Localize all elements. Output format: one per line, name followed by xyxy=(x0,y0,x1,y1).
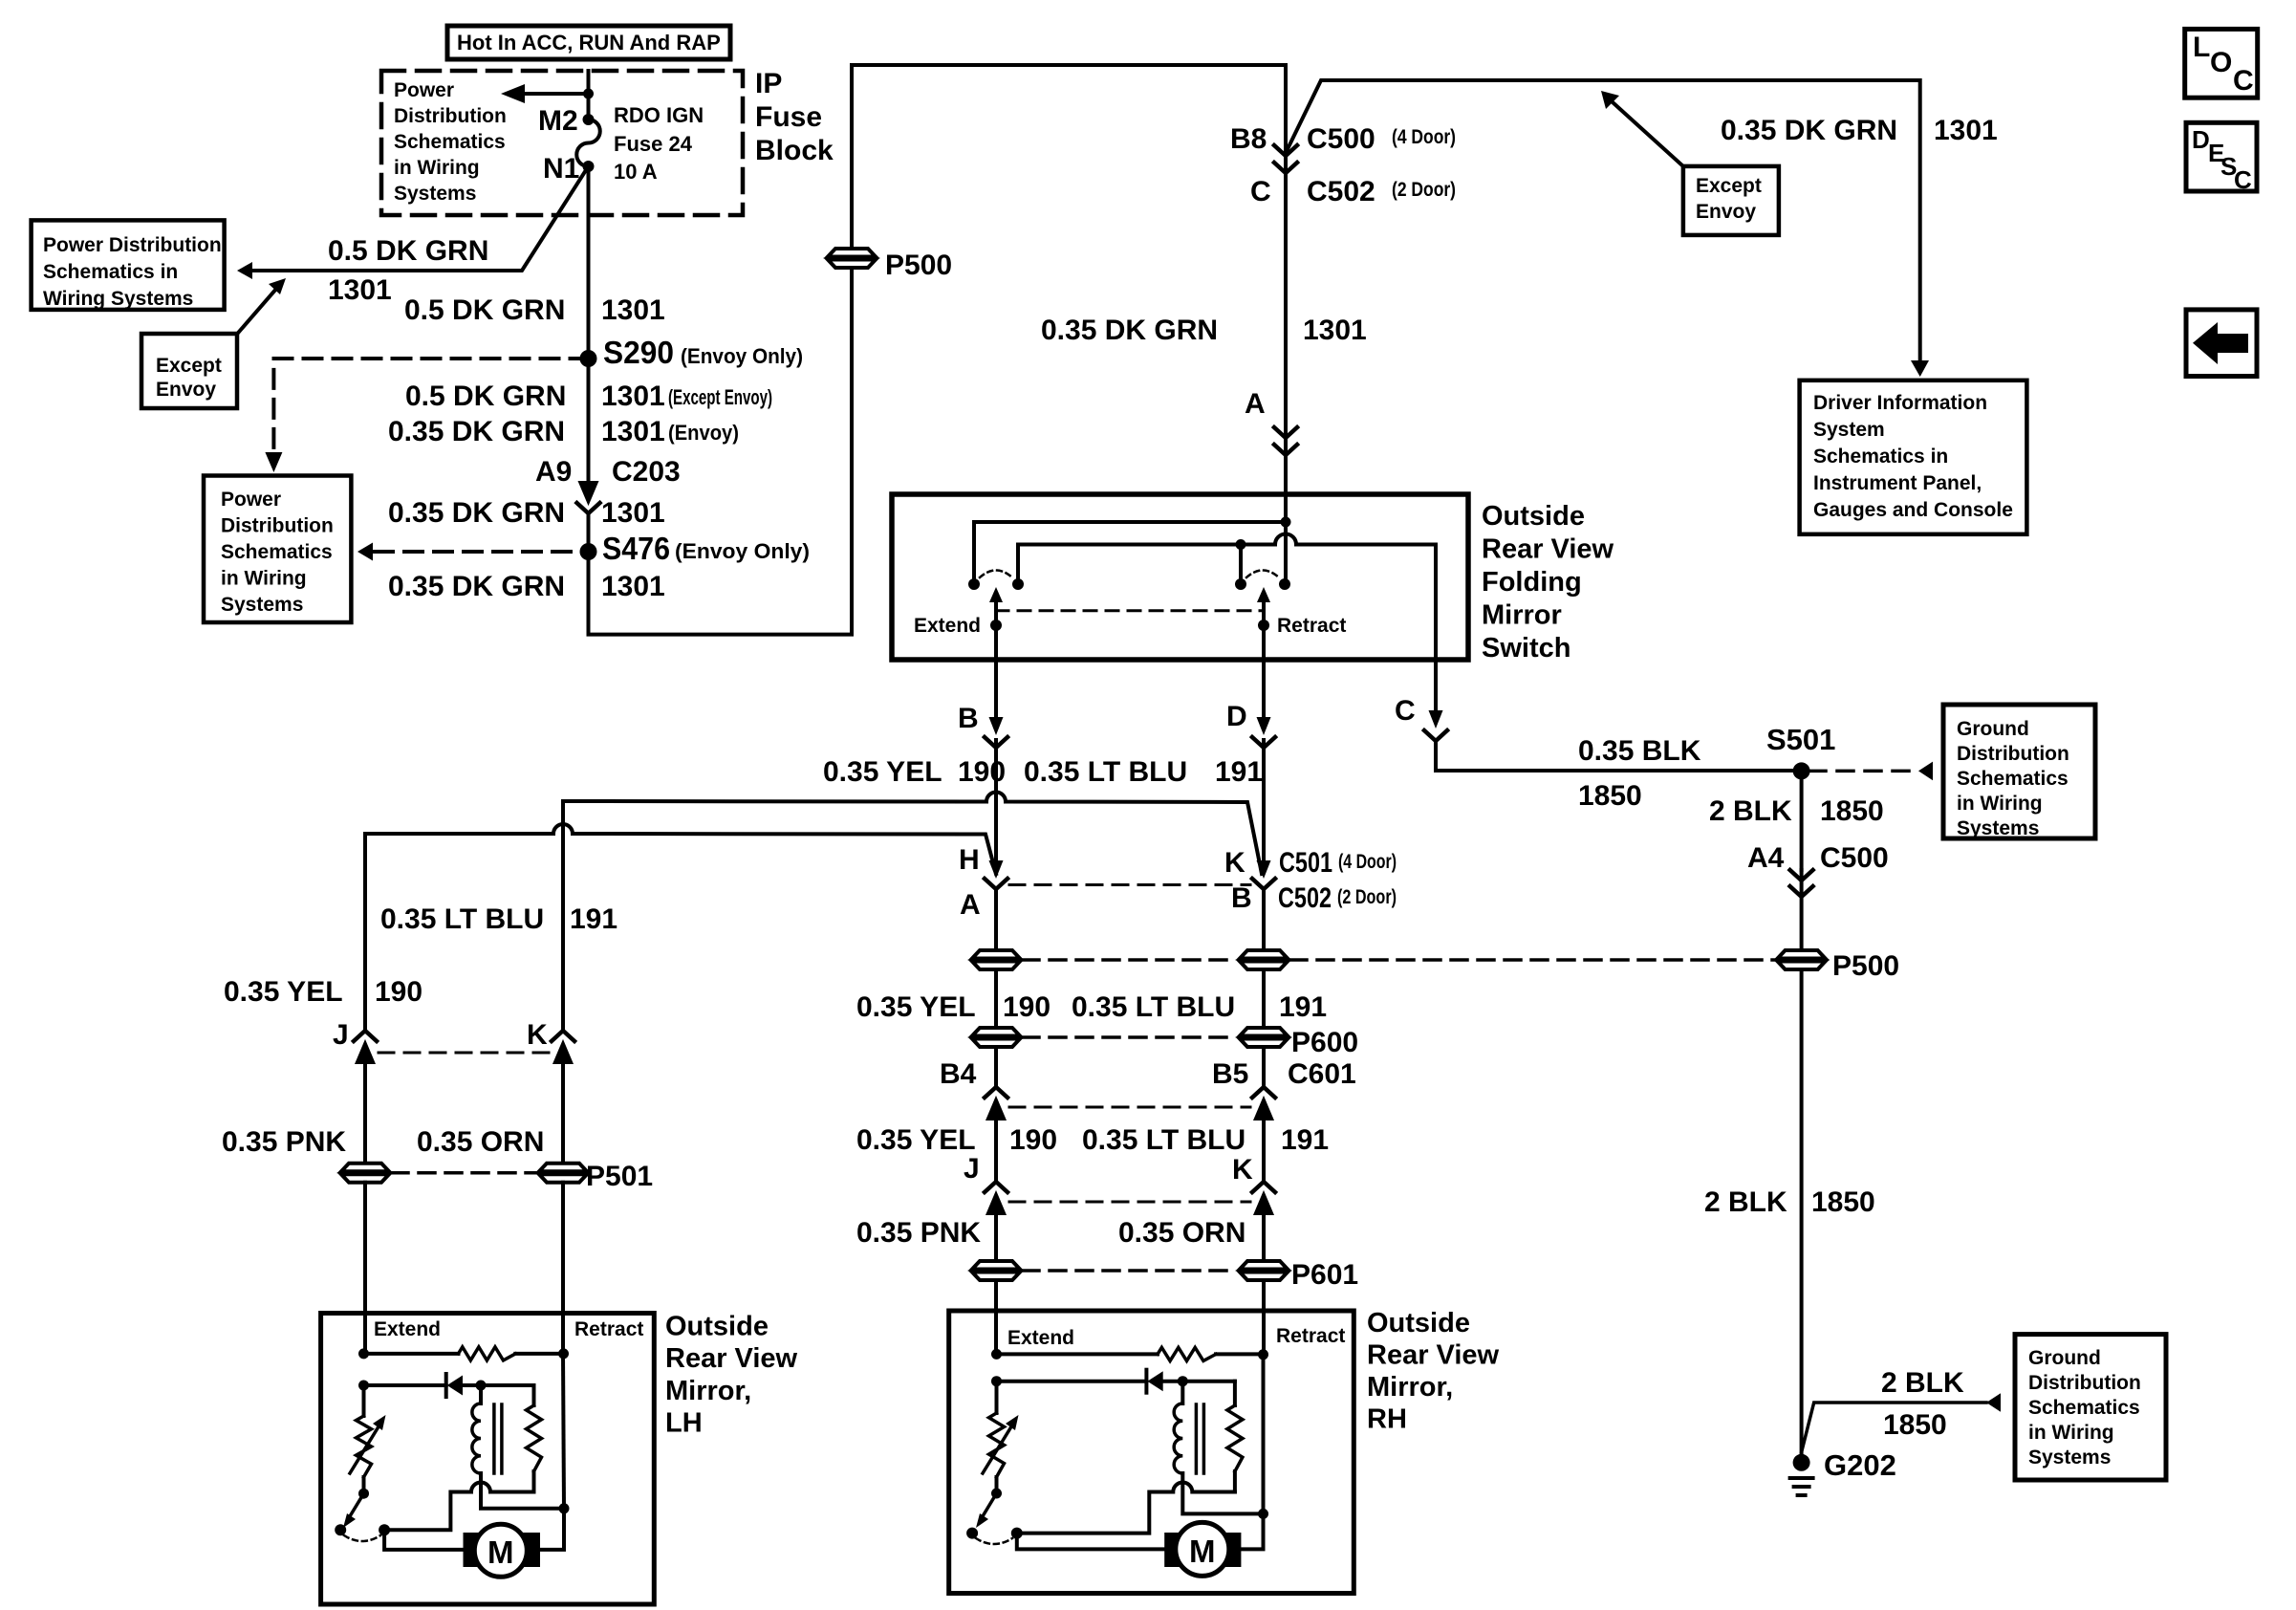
connector C601 pin B5 xyxy=(1212,1058,1356,1182)
label: 2 BLK / 1850 (branch) xyxy=(1881,1367,1964,1441)
svg-text:Retract: Retract xyxy=(1276,1325,1345,1347)
svg-text:0.5 DK GRN: 0.5 DK GRN xyxy=(328,235,488,267)
wire: D wire down through K xyxy=(1262,740,1266,859)
svg-text:0.35 ORN: 0.35 ORN xyxy=(1118,1217,1245,1249)
connector C501 pin K / C502 pin B xyxy=(1224,847,1397,950)
svg-text:0.35 YEL: 0.35 YEL xyxy=(856,991,976,1023)
wire: Retract wire to box edge xyxy=(1262,625,1266,660)
wire: S501 down xyxy=(1800,771,1804,870)
svg-text:191: 191 xyxy=(1279,991,1327,1023)
svg-text:0.35 YEL: 0.35 YEL xyxy=(224,976,343,1008)
svg-text:Systems: Systems xyxy=(221,594,303,616)
svg-text:0.5 DK GRN: 0.5 DK GRN xyxy=(405,381,566,412)
connector P601 (left) xyxy=(972,1261,1020,1280)
label: back-arrow box xyxy=(2186,310,2257,377)
label: 0.35 DK GRN 1301 (top right) xyxy=(1721,115,1998,146)
wire: resistor bottom to switch contact (LH) with hop xyxy=(384,1483,533,1531)
svg-text:1301: 1301 xyxy=(601,497,665,529)
svg-text:in Wiring: in Wiring xyxy=(1957,793,2043,815)
wire: dashed P600 line xyxy=(1023,1035,1237,1039)
label: 0.35 YEL 190 / 0.35 LT BLU 191 (row 2) xyxy=(856,991,1327,1023)
svg-text:Power: Power xyxy=(394,79,454,101)
svg-text:190: 190 xyxy=(1009,1124,1057,1156)
svg-text:Distribution: Distribution xyxy=(1957,743,2069,765)
svg-text:Except: Except xyxy=(1696,175,1762,197)
svg-text:M2: M2 xyxy=(538,105,578,137)
resistor (RH bridge) xyxy=(997,1352,1159,1356)
wire: 0.5 DK GRN 1301 to power distribution (left) xyxy=(237,166,589,279)
svg-text:G202: G202 xyxy=(1824,1448,1896,1482)
svg-text:Retract: Retract xyxy=(1277,615,1346,637)
label: Outside Rear View Folding Mirror Switch xyxy=(1482,501,1614,664)
wire: RH retract vertical xyxy=(1262,1355,1266,1513)
svg-text:191: 191 xyxy=(1281,1124,1329,1156)
svg-text:0.35 YEL: 0.35 YEL xyxy=(823,756,942,788)
svg-text:0.35 ORN: 0.35 ORN xyxy=(417,1126,544,1158)
main wire: 0.5 DK GRN 1301 vertical from N1 xyxy=(587,166,591,359)
svg-text:1301: 1301 xyxy=(601,416,665,447)
label: Hot In ACC RUN And RAP box xyxy=(447,26,730,59)
svg-text:Rear View: Rear View xyxy=(1482,534,1614,565)
svg-text:2 BLK: 2 BLK xyxy=(1709,795,1792,827)
connector P500 (left pass-through) xyxy=(972,950,1020,969)
svg-text:System: System xyxy=(1813,419,1885,441)
splice S501 xyxy=(1793,762,1810,779)
svg-text:K: K xyxy=(1232,1154,1253,1186)
svg-text:(Envoy): (Envoy) xyxy=(668,421,739,445)
connector pin A (switch) xyxy=(1245,388,1297,455)
wire: dashed connector line H-K xyxy=(1009,883,1250,886)
svg-text:1850: 1850 xyxy=(1811,1186,1875,1218)
svg-text:A9: A9 xyxy=(535,456,572,488)
svg-text:Ground: Ground xyxy=(2028,1347,2101,1369)
connector P501 (right) xyxy=(539,1164,587,1183)
svg-text:Rear View: Rear View xyxy=(1367,1340,1500,1371)
svg-text:Outside: Outside xyxy=(1482,501,1585,532)
wire: branch to ground distribution (lower) xyxy=(1802,1393,2001,1452)
label: 0.5 DK GRN / 1301 (vertical) xyxy=(404,294,665,326)
svg-text:190: 190 xyxy=(375,976,422,1008)
connector pin K (LH mirror) xyxy=(527,1019,574,1164)
wire: second bus in switch xyxy=(1018,534,1436,661)
svg-text:0.5 DK GRN: 0.5 DK GRN xyxy=(404,294,565,326)
svg-text:0.35 YEL: 0.35 YEL xyxy=(856,1124,976,1156)
ground G202 xyxy=(1790,1454,1813,1495)
connector pin D (switch) xyxy=(1226,660,1275,748)
wire: dashed connector line B4-B5 xyxy=(1009,1106,1250,1109)
wire: arrow to Except Envoy (top right) xyxy=(1601,91,1683,166)
wire: motor to retract wire (RH) xyxy=(1241,1513,1263,1549)
wire: contact to motor (RH) xyxy=(1017,1534,1164,1550)
svg-text:1301: 1301 xyxy=(1303,315,1367,346)
svg-text:Schematics in: Schematics in xyxy=(43,261,178,283)
IP fuse block (dashed box) xyxy=(381,71,743,215)
label: Power Distribution Schematics in Wiring Systems box (left) xyxy=(32,220,225,310)
connector P501 (left) xyxy=(341,1164,389,1183)
wire: P600 to C601 xyxy=(994,1047,998,1086)
label: Driver Information System box xyxy=(1800,381,2027,534)
wire: dashed from S476 to power distribution box xyxy=(357,543,589,561)
svg-text:Extend: Extend xyxy=(1007,1327,1074,1349)
wire: dashed connector line J-K (LH) xyxy=(379,1052,550,1055)
svg-text:in Wiring: in Wiring xyxy=(2028,1422,2114,1444)
label: Except Envoy box (top right) xyxy=(1683,166,1779,235)
svg-text:K: K xyxy=(527,1019,548,1051)
svg-text:0.35 PNK: 0.35 PNK xyxy=(222,1126,346,1158)
svg-text:Mirror,: Mirror, xyxy=(1367,1372,1453,1403)
label: DESC box xyxy=(2186,122,2257,194)
label: 2 BLK 1850 (below S501) xyxy=(1709,795,1884,827)
svg-text:Extend: Extend xyxy=(914,615,981,637)
svg-text:Instrument Panel,: Instrument Panel, xyxy=(1813,472,1982,494)
wire: YEL branch down (J side) xyxy=(363,834,367,1032)
wire: feed hop and down to right contact xyxy=(1284,522,1288,584)
wire: LH extend node xyxy=(358,1348,369,1359)
svg-text:2 BLK: 2 BLK xyxy=(1704,1186,1787,1218)
label: 0.35 DK GRN 1301 (above switch) xyxy=(1041,315,1367,346)
svg-text:1301: 1301 xyxy=(601,381,665,412)
svg-text:191: 191 xyxy=(1215,756,1263,788)
svg-text:Schematics: Schematics xyxy=(394,131,506,153)
svg-text:(2 Door): (2 Door) xyxy=(1337,886,1397,908)
svg-text:D: D xyxy=(1226,701,1247,732)
label: Except Envoy box (left) xyxy=(141,334,237,408)
label: 0.35 DK GRN 1301 (below C203) xyxy=(388,497,665,529)
svg-text:1850: 1850 xyxy=(1578,780,1642,812)
motor M (RH) xyxy=(1164,1522,1241,1576)
svg-text:B: B xyxy=(958,703,979,734)
connector C501 pin H / C502 pin A xyxy=(959,844,1007,950)
wire: contact to motor (LH) xyxy=(384,1530,463,1550)
label: 0.35 LT BLU 191 (left) xyxy=(380,903,617,935)
svg-text:C502: C502 xyxy=(1307,176,1375,207)
svg-text:Distribution: Distribution xyxy=(2028,1372,2141,1394)
svg-text:in Wiring: in Wiring xyxy=(221,568,307,590)
svg-text:L: L xyxy=(2193,32,2210,63)
label: Ground Distribution Schematics in Wiring Systems box (lower) xyxy=(2015,1335,2166,1480)
svg-text:D: D xyxy=(2192,125,2210,154)
connector P500 (right pass-through) xyxy=(1240,950,1288,969)
switch contacts (Extend side) xyxy=(968,578,980,590)
label: 0.35 YEL 190 / 0.35 LT BLU 191 (row 3) xyxy=(856,1124,1329,1156)
svg-text:RDO IGN: RDO IGN xyxy=(614,103,704,127)
wire: B wire down through H xyxy=(994,740,998,859)
wire: motor to retract wire (LH) xyxy=(540,1509,564,1550)
svg-text:N1: N1 xyxy=(543,153,579,185)
connector C500 pin A4 xyxy=(1747,842,1889,897)
svg-text:Distribution: Distribution xyxy=(221,515,334,537)
wire: dashed connector line J-K xyxy=(1009,1201,1250,1204)
variable resistor PTC (LH) xyxy=(362,1385,366,1416)
svg-text:M: M xyxy=(487,1534,514,1570)
svg-text:Outside: Outside xyxy=(1367,1308,1470,1338)
svg-text:Schematics: Schematics xyxy=(221,541,333,563)
diode (LH) xyxy=(364,1383,446,1387)
svg-text:Schematics in: Schematics in xyxy=(1813,446,1948,468)
svg-text:Systems: Systems xyxy=(394,183,476,205)
splice S476 (Envoy Only) xyxy=(580,543,597,560)
switch wiper Retract xyxy=(1257,587,1270,631)
svg-text:Fuse 24: Fuse 24 xyxy=(614,132,693,156)
svg-text:C500: C500 xyxy=(1307,123,1375,155)
wire: A4 to P500 xyxy=(1800,870,1804,950)
svg-text:Schematics: Schematics xyxy=(2028,1397,2140,1419)
wire: resistor bottom to contact (RH) with hop xyxy=(1017,1483,1235,1534)
svg-text:Hot In ACC, RUN And RAP: Hot In ACC, RUN And RAP xyxy=(457,31,721,54)
connector pin K (RH mirror) xyxy=(1232,1154,1275,1261)
svg-text:J: J xyxy=(964,1153,980,1185)
wire: RH extend node xyxy=(991,1349,1002,1360)
svg-text:K: K xyxy=(1224,847,1245,879)
wire: S290 to C203 xyxy=(587,359,591,483)
wire: dashed P500 line across to body P500 xyxy=(1023,958,1237,962)
svg-text:Mirror: Mirror xyxy=(1482,600,1562,631)
connector pin J (LH mirror) xyxy=(333,1019,377,1164)
component: Outside Rear View Mirror RH box xyxy=(949,1311,1354,1594)
svg-text:1850: 1850 xyxy=(1820,795,1884,827)
mechanical link (dashed) between wipers xyxy=(996,609,1264,612)
label: Outside Rear View Mirror, LH xyxy=(665,1312,798,1439)
wire: diagonal from C500 to DIS branch xyxy=(1286,80,1920,361)
svg-text:Outside: Outside xyxy=(665,1312,769,1342)
svg-text:J: J xyxy=(333,1019,349,1051)
svg-text:Systems: Systems xyxy=(2028,1447,2111,1469)
wire: P501 into LH mirror xyxy=(363,1183,367,1354)
svg-text:Mirror,: Mirror, xyxy=(665,1376,751,1406)
svg-text:B5: B5 xyxy=(1212,1058,1248,1090)
svg-text:190: 190 xyxy=(1003,991,1051,1023)
svg-text:Rear View: Rear View xyxy=(665,1343,798,1374)
svg-text:C: C xyxy=(2233,65,2254,97)
wire: YEL branch to LH mirror (y=872) xyxy=(365,824,996,874)
relay core (RH) xyxy=(1195,1404,1199,1473)
svg-text:RH: RH xyxy=(1367,1404,1407,1435)
label: 0.5 DK GRN 1301 (Except Envoy) xyxy=(405,381,772,412)
svg-text:P601: P601 xyxy=(1291,1259,1358,1291)
svg-text:0.35 PNK: 0.35 PNK xyxy=(856,1217,981,1249)
relay coil (RH) xyxy=(1180,1382,1184,1403)
svg-text:Distribution: Distribution xyxy=(394,105,507,127)
svg-text:Switch: Switch xyxy=(1482,633,1570,664)
component: Outside Rear View Folding Mirror Switch box xyxy=(892,494,1468,660)
thermal switch arm (LH) xyxy=(343,1493,364,1528)
wire: dashed to Ground Distribution box xyxy=(1809,762,1933,781)
label: 0.35 PNK / 0.35 ORN (left) xyxy=(222,1126,544,1158)
svg-text:C: C xyxy=(1395,695,1416,727)
svg-text:Schematics: Schematics xyxy=(1957,768,2069,790)
svg-text:(2 Door): (2 Door) xyxy=(1392,179,1456,201)
svg-text:10 A: 10 A xyxy=(614,160,658,184)
wire: fuse feed from box top xyxy=(587,71,591,120)
svg-text:Fuse: Fuse xyxy=(755,101,822,133)
svg-text:C502: C502 xyxy=(1278,882,1332,914)
resistor vertical (RH relay) xyxy=(1233,1382,1237,1405)
connector C601 pin B4 xyxy=(940,1058,1007,1182)
switch contacts (RH) xyxy=(966,1528,978,1539)
wire: LH retract vertical xyxy=(563,1354,564,1509)
wire: Extend wire to box edge xyxy=(994,625,998,660)
connector P500 (IP harness pass-through) xyxy=(828,249,876,268)
connector pin B (switch) xyxy=(958,660,1007,748)
svg-text:M: M xyxy=(1189,1534,1216,1569)
svg-text:0.35 LT BLU: 0.35 LT BLU xyxy=(1024,756,1187,788)
label: Power Distribution Schematics in Wiring Systems box (lower left) xyxy=(204,476,351,623)
resistor vertical (LH relay) xyxy=(532,1385,536,1405)
svg-text:0.35 LT BLU: 0.35 LT BLU xyxy=(1082,1124,1245,1156)
connector P601 (right) xyxy=(1240,1261,1288,1280)
connector C500 pin B8 / C502 pin C xyxy=(1230,123,1456,207)
wire: dashed P601 line xyxy=(1023,1269,1237,1273)
diode (RH) xyxy=(997,1380,1147,1383)
svg-text:Driver Information: Driver Information xyxy=(1813,392,1987,414)
label: Ground Distribution Schematics in Wiring Systems box (upper) xyxy=(1943,705,2095,839)
svg-text:1301: 1301 xyxy=(1934,115,1998,146)
svg-text:Envoy: Envoy xyxy=(1696,201,1756,223)
svg-text:Except: Except xyxy=(156,355,222,377)
wire: between P500 and P600 xyxy=(994,969,998,1028)
svg-text:C500: C500 xyxy=(1820,842,1889,874)
svg-text:(Envoy Only): (Envoy Only) xyxy=(681,344,803,368)
wire: P500 down to G202 xyxy=(1800,969,1804,1463)
svg-text:0.35 DK GRN: 0.35 DK GRN xyxy=(388,571,565,602)
wire: P601 into RH mirror xyxy=(994,1280,998,1354)
connector pin J (RH mirror) xyxy=(964,1153,1007,1261)
relay core (LH) xyxy=(492,1404,496,1473)
wire: dashed branch from S290 to power distribution below xyxy=(273,359,588,450)
svg-text:C203: C203 xyxy=(612,456,681,488)
label: Power Distribution Schematics in Wiring Systems (inside fuse block) xyxy=(394,79,507,205)
svg-text:(Envoy Only): (Envoy Only) xyxy=(675,539,810,563)
svg-text:in Wiring: in Wiring xyxy=(394,157,480,179)
svg-text:P500: P500 xyxy=(885,250,952,281)
svg-text:0.35 LT BLU: 0.35 LT BLU xyxy=(380,903,544,935)
switch contacts (Retract side) xyxy=(1235,578,1246,590)
svg-text:C: C xyxy=(2234,165,2252,194)
wire: dashed P501 line xyxy=(392,1171,536,1175)
svg-text:0.35 DK GRN: 0.35 DK GRN xyxy=(1041,315,1218,346)
svg-text:O: O xyxy=(2210,47,2232,78)
label: 0.35 PNK / 0.35 ORN xyxy=(856,1217,1245,1249)
svg-text:B8: B8 xyxy=(1230,123,1267,155)
resistor (LH bridge) xyxy=(364,1352,459,1356)
label: 0.35 YEL 190 (left) xyxy=(224,976,422,1008)
label: 0.35 DK GRN 1301 (Envoy) xyxy=(388,416,739,447)
svg-text:190: 190 xyxy=(958,756,1006,788)
connector C203 pin A9 xyxy=(535,456,681,513)
svg-text:(4 Door): (4 Door) xyxy=(1392,126,1456,148)
wire: arrow from Except Envoy to 1301 wire xyxy=(239,278,286,332)
label: RDO IGN Fuse 24 10 A xyxy=(614,103,704,184)
svg-text:P501: P501 xyxy=(586,1161,653,1192)
label: LOC box xyxy=(2185,29,2258,98)
svg-text:1301: 1301 xyxy=(601,294,665,326)
svg-text:(Except Envoy): (Except Envoy) xyxy=(668,385,772,409)
wire: C203 to S476 xyxy=(589,65,1287,635)
connector P600 (right) xyxy=(1240,1028,1288,1047)
svg-text:B4: B4 xyxy=(940,1058,977,1090)
svg-text:Power Distribution: Power Distribution xyxy=(43,234,222,256)
svg-text:191: 191 xyxy=(570,903,617,935)
label: 0.35 YEL 190 / 0.35 LT BLU 191 (row 1) xyxy=(823,756,1263,788)
svg-text:Wiring Systems: Wiring Systems xyxy=(43,288,193,310)
svg-text:H: H xyxy=(959,844,980,876)
svg-text:C: C xyxy=(1250,176,1271,207)
svg-text:S501: S501 xyxy=(1766,723,1835,756)
connector P500 (body side) xyxy=(1778,950,1826,969)
label: 2 BLK 1850 (mid) xyxy=(1704,1186,1875,1218)
wire: LT BLU branch to LH mirror (y=838) xyxy=(563,793,1262,875)
svg-text:Retract: Retract xyxy=(574,1318,643,1340)
label: IP Fuse Block xyxy=(755,68,834,166)
svg-text:1301: 1301 xyxy=(601,571,665,602)
svg-text:0.35 BLK: 0.35 BLK xyxy=(1578,735,1701,767)
svg-text:C501: C501 xyxy=(1279,847,1332,879)
node N1 xyxy=(583,161,595,172)
svg-text:0.35 DK GRN: 0.35 DK GRN xyxy=(388,497,565,529)
wire: arrow branch to power distribution xyxy=(501,84,589,103)
svg-text:0.35 DK GRN: 0.35 DK GRN xyxy=(388,416,565,447)
svg-text:B: B xyxy=(1231,882,1252,914)
variable resistor PTC (RH) xyxy=(995,1382,999,1413)
svg-text:0.35 DK GRN: 0.35 DK GRN xyxy=(1721,115,1897,146)
svg-text:Block: Block xyxy=(755,135,834,166)
svg-text:Folding: Folding xyxy=(1482,567,1582,598)
svg-text:Power: Power xyxy=(221,489,281,511)
svg-text:(4 Door): (4 Door) xyxy=(1338,851,1397,873)
thermal switch arm (RH) xyxy=(976,1493,997,1528)
relay coil (LH) xyxy=(479,1385,483,1403)
svg-text:S290: S290 xyxy=(603,335,674,370)
fuse RDO IGN Fuse 24 10A (S-curve element) xyxy=(576,120,600,166)
label: 0.35 DK GRN 1301 (bottom left) xyxy=(388,571,665,602)
svg-text:P600: P600 xyxy=(1291,1027,1358,1058)
label: Outside Rear View Mirror, RH xyxy=(1367,1308,1500,1435)
wire: 0.35 BLK 1850 to S501 xyxy=(1436,740,1792,771)
motor M (LH) xyxy=(464,1524,541,1577)
switch wiper Extend xyxy=(989,587,1003,631)
wire: LT BLU branch down (K side) xyxy=(561,801,565,1032)
node M2 xyxy=(583,114,595,125)
wire: 0.35 DK GRN from C500 to switch xyxy=(1284,144,1288,494)
connector pin C (switch) xyxy=(1395,660,1447,741)
svg-text:Extend: Extend xyxy=(374,1318,441,1340)
label: 0.5 DK GRN / 1301 (diagonal wire) xyxy=(328,235,488,306)
node: junction at fuse top xyxy=(583,89,594,99)
svg-text:IP: IP xyxy=(755,68,782,99)
component: Outside Rear View Mirror LH box xyxy=(321,1314,655,1605)
splice S290 (Envoy Only) xyxy=(580,350,597,367)
svg-text:C601: C601 xyxy=(1288,1058,1356,1090)
switch contacts (LH) xyxy=(335,1524,346,1535)
svg-text:Ground: Ground xyxy=(1957,718,2029,740)
svg-text:P500: P500 xyxy=(1832,950,1899,982)
svg-text:Envoy: Envoy xyxy=(156,379,216,401)
svg-text:Gauges and Console: Gauges and Console xyxy=(1813,499,2013,521)
svg-text:LH: LH xyxy=(665,1408,703,1439)
svg-text:A: A xyxy=(960,889,981,921)
label: 0.35 BLK / 1850 xyxy=(1578,735,1701,812)
svg-text:Systems: Systems xyxy=(1957,817,2039,839)
svg-text:1301: 1301 xyxy=(328,274,392,306)
connector P600 (left) xyxy=(972,1028,1020,1047)
svg-text:S476: S476 xyxy=(602,531,670,566)
svg-text:1850: 1850 xyxy=(1883,1409,1947,1441)
svg-text:A4: A4 xyxy=(1747,842,1785,874)
svg-text:2 BLK: 2 BLK xyxy=(1881,1367,1964,1399)
svg-text:0.35 LT BLU: 0.35 LT BLU xyxy=(1072,991,1235,1023)
svg-text:A: A xyxy=(1245,388,1266,420)
wire: switch feed junction xyxy=(974,494,1286,584)
